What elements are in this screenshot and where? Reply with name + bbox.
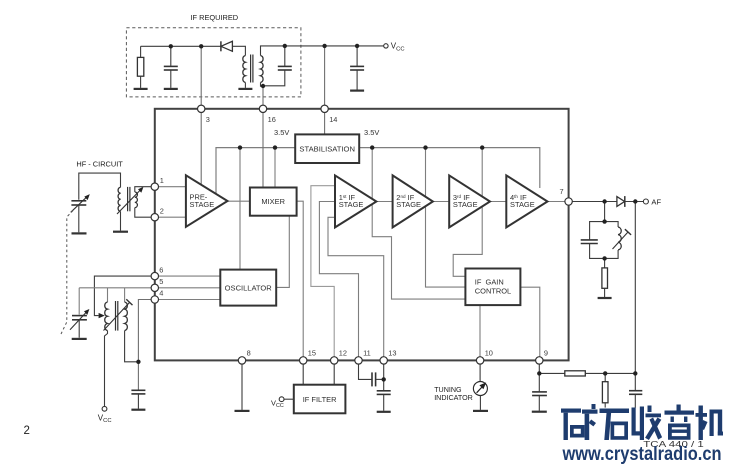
ground [598, 297, 612, 299]
ground [238, 88, 252, 90]
diode D1 [221, 41, 233, 51]
capacitor C2 across secondary [263, 46, 292, 86]
svg-text:8: 8 [247, 349, 251, 358]
wire 1st IF to 2nd IF [376, 201, 394, 203]
tank loop with capacitor C7 [581, 222, 605, 259]
terminal Vcc oscillator [98, 406, 112, 424]
junction dots on 3.5V rail [238, 145, 242, 149]
HF input circuit [61, 159, 152, 334]
pin 8 ground lead [241, 364, 243, 410]
ground [134, 88, 148, 90]
svg-text:2: 2 [24, 425, 30, 437]
junction dots [537, 371, 541, 375]
svg-text:STAGE: STAGE [190, 200, 215, 209]
ground [473, 410, 488, 412]
wire pin16 to mixer [262, 86, 264, 189]
resistor R top-left [137, 46, 143, 88]
op-amp 1st IF STAGE [335, 175, 376, 227]
op-amp 3rd IF STAGE [449, 175, 490, 227]
wire pin5 to oscillator [159, 287, 222, 289]
capacitor C9 [629, 373, 642, 407]
wire pin4 to oscillator [159, 299, 222, 301]
pin 10 [476, 349, 493, 364]
pin 11 [355, 349, 371, 364]
svg-text:STAGE: STAGE [510, 200, 535, 209]
ground [377, 411, 391, 413]
wire pin9 down [538, 364, 540, 373]
resistor R4 [602, 373, 608, 407]
wire 3.5V through 2nd IF to IF gain control [426, 148, 467, 288]
svg-text:4: 4 [159, 289, 163, 298]
wire 3.5V through 1st IF to IF gain control [372, 148, 466, 300]
variable capacitor CV2 [70, 309, 89, 338]
svg-text:STABILISATION: STABILISATION [299, 144, 355, 153]
svg-text:www.crystalradio.cn: www.crystalradio.cn [562, 444, 722, 465]
pin 14 [321, 105, 338, 124]
svg-text:AF: AF [651, 197, 661, 206]
svg-text:3.5V: 3.5V [364, 128, 379, 137]
capacitor C3 Vcc decoupling [350, 46, 364, 90]
ground [113, 231, 128, 233]
wire pin2 to pre-stage [159, 216, 188, 218]
ground [72, 338, 87, 340]
wire pin6 tap [94, 276, 152, 316]
meter tuning indicator [434, 364, 487, 410]
right output network [572, 196, 661, 373]
char shou [632, 406, 663, 441]
pin 8 [238, 349, 250, 364]
diode D2 [617, 196, 625, 207]
oscillator transformer T3 [104, 299, 139, 406]
svg-text:3: 3 [206, 115, 210, 124]
terminal Vcc top [384, 42, 405, 53]
wire IF gain control to pin 10 [479, 305, 481, 357]
IC block outline [155, 109, 569, 361]
wire pre-stage to mixer [225, 200, 251, 202]
pin 2 [151, 206, 164, 221]
wire pin7 to diode [572, 201, 617, 203]
svg-text:CONTROL: CONTROL [475, 287, 511, 296]
svg-text:9: 9 [544, 349, 548, 358]
svg-text:3.5V: 3.5V [274, 128, 289, 137]
junction dots top [169, 44, 173, 48]
svg-text:2: 2 [160, 206, 164, 215]
resistor R2 [602, 258, 608, 297]
pin 15 [300, 349, 317, 364]
box MIXER [250, 188, 297, 216]
junction dot [136, 360, 140, 364]
junction dot [382, 377, 386, 381]
RF transformer T2 [117, 187, 152, 231]
svg-text:6: 6 [159, 265, 163, 274]
wire pin1 to pre-stage [159, 186, 188, 188]
wire top rail left [141, 45, 221, 47]
svg-text:IF FILTER: IF FILTER [303, 395, 337, 404]
wire pin3 to pre-stage [200, 46, 202, 190]
op-amp 2nd IF STAGE [393, 175, 433, 227]
svg-text:OSCILLATOR: OSCILLATOR [225, 283, 273, 292]
wire pin11 to 1st IF stage [319, 202, 358, 358]
wire 3.5V to mixer [274, 148, 276, 189]
svg-text:IF REQUIRED: IF REQUIRED [191, 13, 239, 22]
wire AF node down [634, 202, 636, 374]
wire pin13 to 1st IF stage [328, 217, 384, 357]
svg-text:STAGE: STAGE [396, 200, 421, 209]
svg-text:11: 11 [363, 349, 371, 358]
wire IF transformer secondary to Vcc rail [261, 46, 384, 56]
junction dots [602, 199, 606, 203]
char yin [665, 405, 695, 440]
terminal AF [643, 197, 661, 206]
svg-text:STAGE: STAGE [453, 200, 478, 209]
resistor R3 [539, 371, 635, 376]
ground [131, 409, 145, 411]
svg-text:12: 12 [339, 349, 347, 358]
svg-text:MIXER: MIXER [261, 197, 285, 206]
svg-text:5: 5 [159, 277, 163, 286]
wire 4th IF to pin 7 [548, 201, 567, 203]
variable capacitor CV1 [71, 173, 121, 232]
wire oscillator to mixer [276, 215, 289, 288]
svg-text:13: 13 [388, 349, 396, 358]
op-amp PRE-STAGE [186, 175, 228, 227]
dashed enclosure IF REQUIRED [126, 13, 301, 97]
wire 3rd IF to 4th IF [490, 201, 508, 203]
ground [72, 232, 87, 234]
wire 3.5V rail [216, 148, 540, 194]
svg-text:HF - CIRCUIT: HF - CIRCUIT [76, 159, 123, 168]
wire pin6 to oscillator [159, 275, 222, 277]
svg-text:10: 10 [485, 349, 493, 358]
svg-text:STAGE: STAGE [339, 200, 364, 209]
watermark logo [561, 404, 723, 440]
wire 2nd IF to 3rd IF [433, 201, 451, 203]
pin 9 external network [532, 364, 643, 412]
pin 1 [151, 176, 164, 191]
svg-text:7: 7 [560, 187, 564, 196]
inductor L1 adjustable [605, 222, 632, 259]
capacitor C8 [532, 373, 547, 410]
pin 4 [151, 289, 163, 303]
wire demod tank feed [604, 202, 606, 222]
wire pin4 [138, 300, 152, 391]
gang dashed link [61, 211, 73, 335]
svg-text:14: 14 [329, 115, 337, 124]
box OSCILLATOR [220, 270, 276, 306]
ground [164, 88, 178, 90]
ground [350, 89, 364, 91]
wire IF gain control to pin 9 [520, 287, 539, 357]
wire 3.5V through 3rd IF to IF gain control [453, 148, 482, 277]
wire 3.5V to oscillator [239, 148, 241, 271]
wire diode to AF [625, 201, 643, 203]
box IF FILTER [294, 364, 346, 413]
terminal Vcc IF filter [271, 397, 294, 409]
top decoupling network wires [134, 41, 405, 90]
op-amp 4th IF STAGE [506, 175, 547, 227]
pin 5 [151, 277, 163, 291]
pin 13 [380, 349, 397, 364]
capacitor C1 top-left [164, 46, 178, 88]
capacitor C4 [131, 390, 145, 408]
char ji [696, 406, 724, 441]
svg-text:INDICATOR: INDICATOR [434, 394, 473, 402]
wire pin12 to 1st IF stage [311, 186, 337, 357]
char shi [600, 409, 630, 441]
capacitor C5 pin11 to pin13 [359, 364, 384, 386]
pin 9 [536, 349, 548, 364]
char kuang [561, 404, 598, 440]
svg-text:1: 1 [160, 176, 164, 185]
pin 16 [259, 105, 276, 124]
bottom external components [235, 364, 489, 413]
wire pin14 to stabilisation [324, 46, 326, 136]
svg-text:16: 16 [268, 115, 276, 124]
pin 12 [331, 349, 348, 364]
box STABILISATION [295, 134, 359, 163]
pin 7 [560, 187, 573, 205]
oscillator tank circuit [70, 276, 152, 424]
ground [532, 411, 547, 413]
IF transformer T1 [243, 55, 263, 88]
box IF GAIN CONTROL [465, 269, 520, 306]
wire diode to IF transformer primary [232, 46, 245, 55]
capacitor C6 pin13 to ground [377, 364, 391, 411]
pin 6 [151, 265, 163, 280]
svg-text:IF GAIN: IF GAIN [475, 277, 504, 286]
svg-text:TUNING: TUNING [434, 386, 462, 394]
wire mixer output to pin 15 [297, 201, 304, 357]
wire pin5 net [79, 287, 152, 289]
ground [235, 410, 250, 412]
pin 3 [198, 105, 210, 124]
svg-text:15: 15 [308, 349, 316, 358]
